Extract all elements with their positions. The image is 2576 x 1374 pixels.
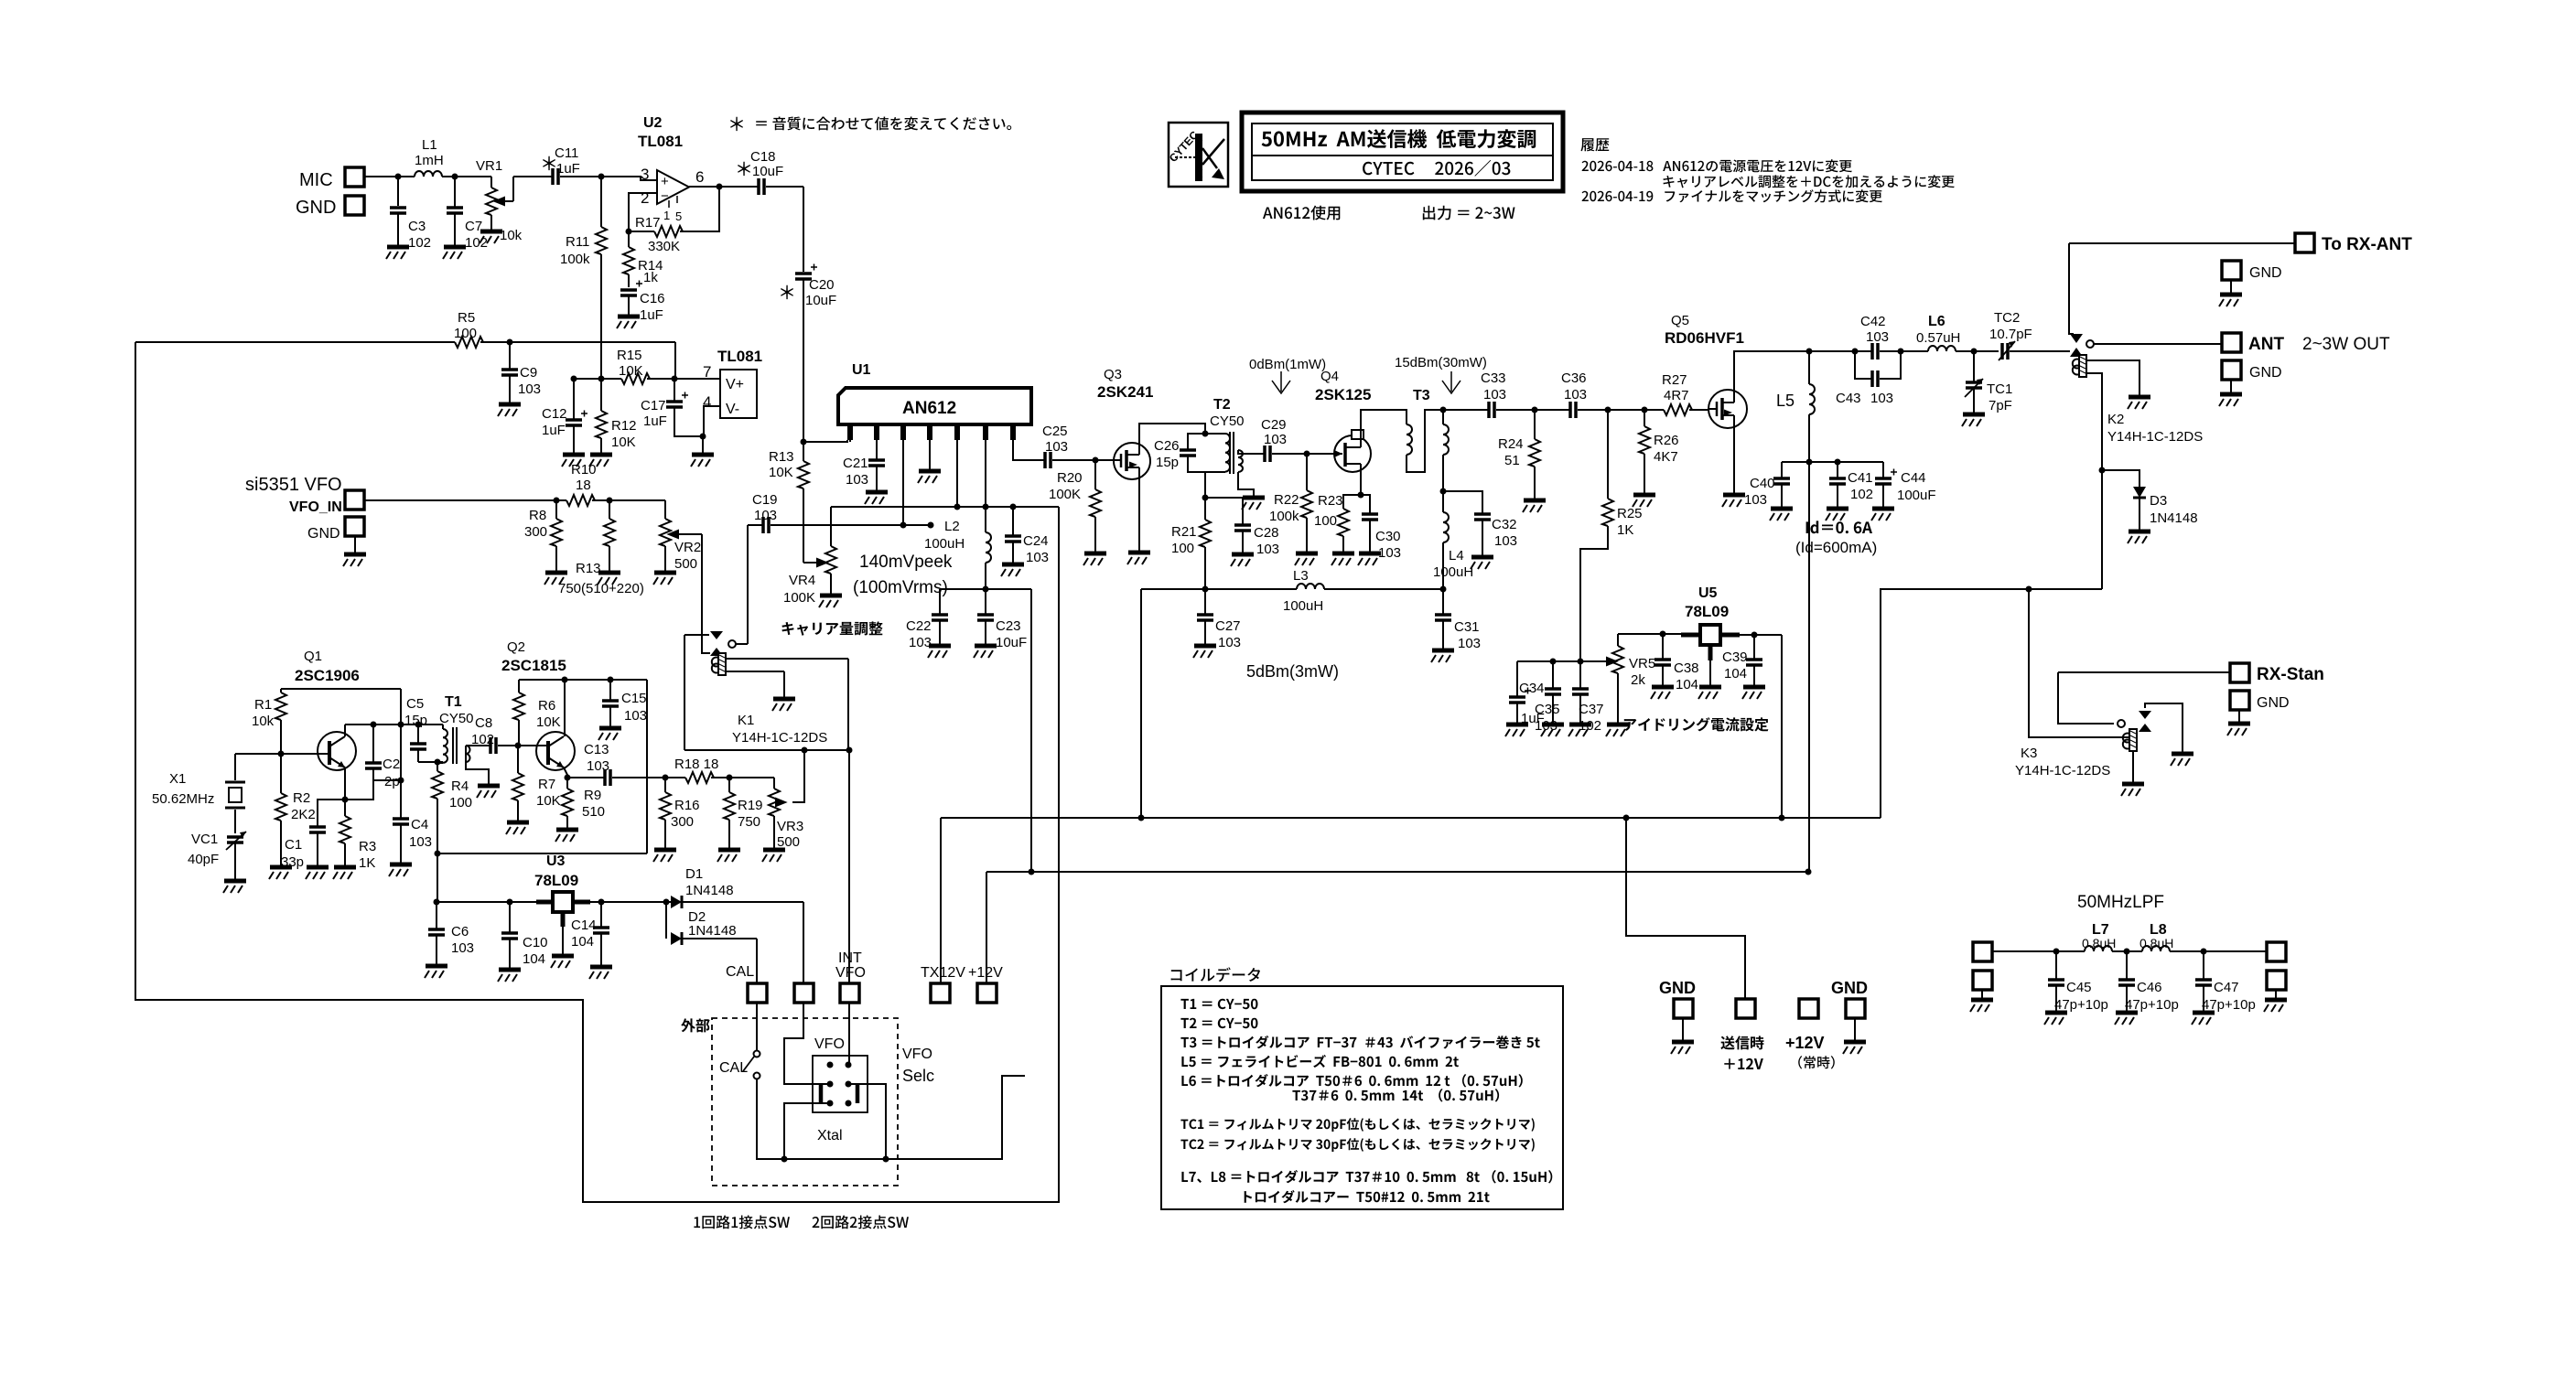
svg-text:103: 103: [1483, 387, 1506, 403]
wire mic to C3: [364, 176, 400, 177]
base line: [235, 753, 318, 755]
svg-text:2: 2: [641, 189, 649, 207]
svg-text:−: −: [661, 188, 669, 204]
connector TX12V: [931, 983, 950, 1003]
wire 9V to Q2 rail: [437, 680, 647, 853]
svg-text:102: 102: [1850, 487, 1873, 502]
svg-text:103: 103: [909, 635, 932, 650]
svg-text:U1: U1: [852, 362, 871, 378]
caption idling: [1624, 717, 1769, 731]
svg-text:R24: R24: [1498, 436, 1524, 452]
svg-text:10uF: 10uF: [752, 164, 783, 179]
transistor Q4 2SK125: [1307, 430, 1371, 472]
svg-text:103: 103: [1866, 329, 1889, 345]
svg-text:103: 103: [1045, 439, 1068, 455]
svg-text:TC1: TC1: [1987, 381, 2012, 397]
inductor L5: [1808, 351, 1810, 384]
svg-text:C36: C36: [1561, 370, 1587, 386]
relay K2 contact: [2059, 334, 2222, 357]
capacitor C14: [600, 902, 602, 928]
svg-text:TC2: TC2: [1994, 310, 2020, 326]
svg-text:10.7pF: 10.7pF: [1989, 327, 2032, 342]
svg-text:15p: 15p: [1156, 455, 1179, 470]
svg-text:C13: C13: [584, 742, 609, 757]
svg-text:78L09: 78L09: [1685, 603, 1729, 620]
svg-text:GND: GND: [1831, 979, 1868, 997]
connector ANT: [2222, 333, 2241, 352]
connector GND (rxstan): [2230, 691, 2249, 710]
svg-text:R4: R4: [451, 778, 469, 794]
svg-text:U2: U2: [643, 115, 663, 131]
relay K2 coil: [2073, 355, 2086, 377]
svg-text:D3: D3: [2150, 493, 2167, 509]
capacitor C18: [759, 178, 764, 195]
resistor R12: [600, 379, 602, 411]
connector GND (ant): [2222, 360, 2241, 380]
svg-text:R21: R21: [1171, 524, 1197, 540]
svg-text:T1: T1: [445, 694, 462, 710]
svg-text:Xtal: Xtal: [817, 1128, 843, 1143]
op-amp U2 TL081: [641, 166, 704, 223]
resistor R10: [556, 499, 566, 501]
resistor R24: [1534, 410, 1536, 439]
R18 node line: [663, 775, 669, 781]
svg-text:15p: 15p: [404, 713, 427, 728]
svg-text:C24: C24: [1023, 533, 1049, 549]
svg-text:R15: R15: [617, 348, 642, 363]
inductor L2: [985, 507, 986, 532]
wire vfo in: [364, 499, 556, 501]
svg-text:C32: C32: [1492, 517, 1517, 532]
svg-text:T3: T3: [1413, 388, 1430, 403]
svg-text:K2: K2: [2107, 412, 2124, 427]
svg-text:T2: T2: [1213, 397, 1231, 413]
svg-text:100: 100: [449, 795, 472, 810]
svg-text:1uF: 1uF: [556, 161, 580, 177]
svg-text:C7: C7: [465, 219, 482, 234]
resistor R26: [1644, 410, 1645, 426]
svg-text:MIC: MIC: [299, 170, 333, 190]
resistor R15: [621, 373, 650, 384]
Q2 collector rail: [519, 679, 647, 681]
connector VFO_IN: [345, 490, 364, 510]
capacitor C23: [985, 589, 986, 615]
svg-text:R18 18: R18 18: [674, 757, 718, 772]
svg-text:C26: C26: [1154, 438, 1180, 454]
svg-text:Y14H-1C-12DS: Y14H-1C-12DS: [732, 730, 827, 746]
svg-text:104: 104: [1724, 666, 1747, 682]
connector +12V: [977, 983, 997, 1003]
svg-text:100k: 100k: [560, 252, 590, 267]
svg-text:C41: C41: [1848, 470, 1873, 486]
svg-text:R3: R3: [359, 839, 376, 854]
svg-text:1N4148: 1N4148: [2150, 510, 2198, 526]
connector MIC: [345, 167, 364, 187]
svg-text:C33: C33: [1481, 370, 1506, 386]
connector TX +12V: [1736, 999, 1755, 1018]
svg-text:2SC1815: 2SC1815: [501, 657, 566, 674]
svg-text:C25: C25: [1042, 424, 1068, 439]
svg-text:L5: L5: [1776, 392, 1795, 410]
svg-text:(100mVrms): (100mVrms): [853, 578, 948, 597]
inductor L6: [1928, 346, 1956, 351]
resistor R18: [665, 777, 685, 778]
VFO ext wire: [784, 1003, 830, 1084]
connector LPF out gnd: [2267, 971, 2286, 990]
svg-text:R2: R2: [293, 790, 310, 806]
svg-text:103: 103: [409, 834, 432, 850]
svg-text:103: 103: [1564, 387, 1587, 403]
svg-text:VFO_IN: VFO_IN: [289, 499, 342, 515]
svg-text:C28: C28: [1254, 525, 1279, 541]
svg-text:C45: C45: [2066, 980, 2092, 995]
svg-text:INT: INT: [838, 950, 862, 966]
svg-text:TL081: TL081: [638, 133, 683, 150]
svg-text:CAL: CAL: [726, 964, 754, 980]
svg-text:103: 103: [451, 940, 474, 956]
node pin1/R13: [801, 439, 807, 445]
capacitor C46: [2126, 951, 2128, 980]
svg-text:10K: 10K: [769, 465, 793, 480]
svg-text:C4: C4: [411, 817, 428, 832]
pin4 wire: [704, 406, 720, 436]
capacitor C20 on vertical: [803, 187, 804, 272]
capacitor C9: [509, 342, 511, 403]
svg-text:7: 7: [703, 363, 711, 381]
svg-text:R12: R12: [611, 418, 637, 434]
svg-text:78L09: 78L09: [534, 872, 578, 889]
svg-text:4R7: 4R7: [1664, 388, 1689, 403]
svg-text:300: 300: [671, 814, 694, 830]
svg-text:500: 500: [777, 834, 800, 850]
svg-text:50.62MHz: 50.62MHz: [152, 791, 214, 807]
svg-text:C14: C14: [571, 918, 597, 933]
svg-text:C42: C42: [1860, 314, 1886, 329]
svg-text:VR3: VR3: [777, 819, 803, 834]
wire R13 to VR4 wiper: [803, 562, 819, 564]
svg-text:2SK241: 2SK241: [1097, 383, 1153, 401]
capacitor C41: [1837, 462, 1838, 478]
svg-text:CY50: CY50: [1210, 413, 1245, 429]
connector RX-Stan: [2230, 663, 2249, 682]
emitter node: [342, 797, 349, 803]
svg-text:C11: C11: [555, 145, 578, 161]
Q4 drain / T3: [1361, 410, 1407, 436]
svg-text:AN612: AN612: [902, 399, 956, 418]
potentiometer VR5: [1607, 658, 1616, 665]
svg-text:C39: C39: [1722, 649, 1748, 665]
svg-text:R16: R16: [674, 798, 700, 813]
variable capacitor VC1: [227, 837, 243, 843]
svg-text:C17: C17: [641, 398, 666, 413]
svg-text:C37: C37: [1579, 702, 1604, 717]
LPF main line: [1992, 950, 2085, 952]
resistor R17: [654, 226, 683, 237]
resistor R21: [1204, 498, 1206, 520]
connector GND (rx): [2222, 261, 2241, 280]
xtal box right wire: [848, 1084, 886, 1159]
resistor R11: [600, 177, 602, 227]
capacitor C8: [490, 737, 496, 754]
capacitor C37: [1579, 661, 1581, 689]
svg-text:1N4148: 1N4148: [688, 923, 737, 939]
svg-text:C1: C1: [285, 837, 302, 853]
svg-text:18: 18: [576, 478, 591, 493]
svg-text:0dBm(1mW): 0dBm(1mW): [1249, 357, 1326, 372]
svg-text:K3: K3: [2021, 746, 2037, 761]
svg-text:10K: 10K: [611, 435, 636, 450]
svg-text:10k: 10k: [252, 714, 275, 729]
svg-text:R1: R1: [254, 697, 272, 713]
svg-text:GND: GND: [2257, 695, 2290, 711]
note asterisk: [730, 117, 743, 131]
inductor L7: [2085, 946, 2112, 951]
svg-text:103: 103: [1026, 550, 1049, 565]
svg-text:R25: R25: [1617, 506, 1643, 521]
relay K3 contact: [2058, 672, 2183, 753]
svg-text:GND: GND: [2249, 365, 2282, 381]
resistor R25: [1607, 410, 1609, 499]
connector LPF in: [1973, 942, 1992, 961]
capacitor C21 (pin2): [876, 440, 878, 460]
svg-text:To RX-ANT: To RX-ANT: [2322, 235, 2412, 254]
emitter node Q2: [565, 775, 571, 781]
dashed box gaibu: [712, 1018, 898, 1186]
svg-text:C19: C19: [752, 492, 778, 508]
svg-text:D1: D1: [685, 866, 703, 882]
rail y693 to U5: [1618, 633, 1681, 635]
transistor Q3 2SK241: [1095, 443, 1150, 479]
CAL switch: [756, 1003, 758, 1050]
resistor R22: [1306, 454, 1308, 490]
svg-text:L1: L1: [422, 137, 437, 153]
capacitor C44: [1882, 462, 1884, 478]
svg-text:Q5: Q5: [1671, 313, 1689, 328]
svg-text:100uH: 100uH: [924, 536, 965, 552]
resistor R3: [344, 800, 346, 816]
svg-text:+: +: [661, 174, 669, 189]
svg-text:2SK125: 2SK125: [1315, 386, 1371, 403]
history text: [1580, 138, 1954, 202]
svg-text:GND: GND: [1659, 979, 1696, 997]
trimmer TC2: [1974, 350, 1999, 352]
svg-text:ANT: ANT: [2248, 335, 2284, 354]
svg-text:1uF: 1uF: [643, 413, 667, 429]
svg-text:100uH: 100uH: [1433, 564, 1473, 580]
inductor L3: [1141, 588, 1297, 590]
subtitle texts: [1263, 206, 1340, 220]
svg-text:VFO: VFO: [835, 965, 866, 981]
resistor R13 10K: [803, 442, 804, 461]
capacitor C32: [1443, 491, 1482, 514]
svg-text:104: 104: [523, 951, 545, 967]
wire TX12V rail y894: [941, 817, 1881, 819]
svg-text:R27: R27: [1662, 372, 1687, 388]
svg-text:750: 750: [738, 814, 760, 830]
pin4 ground: [929, 440, 931, 470]
svg-text:R13: R13: [576, 561, 601, 576]
node C9: [507, 339, 513, 346]
svg-text:R7: R7: [538, 777, 555, 792]
svg-text:C31: C31: [1454, 619, 1480, 635]
svg-text:C10: C10: [523, 935, 548, 950]
wire x2217 to K3 coil: [2029, 589, 2129, 737]
capacitor C47: [2203, 951, 2204, 980]
svg-text:100k: 100k: [1269, 509, 1299, 524]
svg-text:C2: C2: [383, 757, 400, 772]
regulator U3 78L09: [536, 892, 590, 955]
svg-text:103: 103: [518, 381, 541, 397]
svg-text:330K: 330K: [648, 239, 680, 254]
svg-text:2p: 2p: [384, 774, 400, 789]
Q3 drain wire: [1139, 424, 1205, 443]
svg-text:C22: C22: [906, 618, 932, 634]
input wire: [437, 901, 536, 903]
+9V rail Q1: [281, 689, 401, 819]
svg-text:10K: 10K: [619, 363, 643, 379]
svg-text:10uF: 10uF: [805, 293, 836, 308]
connector INT VFO: [840, 983, 859, 1003]
wire x1247 riser: [1140, 589, 1142, 818]
regulator U5 78L09: [1681, 625, 1740, 686]
diode D2: [665, 902, 667, 939]
capacitor C45: [2055, 951, 2057, 980]
capacitor C38: [1662, 634, 1664, 660]
TL081 V box: [720, 370, 757, 418]
svg-text:Q1: Q1: [304, 649, 322, 664]
potentiometer VR1: [455, 177, 491, 188]
capacitor C1: [318, 800, 345, 827]
capacitor C7: [454, 177, 456, 246]
relay K1 coil: [712, 653, 726, 675]
transformer T3: [1407, 410, 1449, 491]
sw captions: [694, 1216, 790, 1229]
svg-text:+12V: +12V: [1785, 1034, 1825, 1052]
rail y644: [940, 588, 1031, 590]
svg-text:TL081: TL081: [717, 348, 762, 365]
svg-text:C20: C20: [809, 277, 835, 293]
connector LPF in gnd: [1973, 971, 1992, 990]
capacitor C11: [553, 168, 558, 185]
Q5 source ground: [1733, 428, 1735, 494]
resistor R7: [517, 746, 519, 773]
svg-text:C46: C46: [2137, 980, 2162, 995]
collector rail y792: [345, 724, 443, 725]
svg-text:1: 1: [663, 209, 670, 222]
CYTEC logo box: [1167, 123, 1228, 187]
Q3 source ground: [1138, 479, 1140, 552]
potentiometer VR4: [830, 507, 832, 546]
ground (C3): [386, 247, 409, 259]
xtal switch box: [813, 1056, 868, 1112]
svg-text:V+: V+: [726, 377, 744, 392]
relay K1 contact: [684, 525, 748, 750]
svg-text:C30: C30: [1375, 529, 1401, 544]
svg-text:1k: 1k: [643, 270, 658, 285]
svg-text:U5: U5: [1698, 585, 1718, 601]
svg-text:C18: C18: [750, 149, 776, 165]
svg-text:104: 104: [571, 934, 594, 950]
svg-text:C21: C21: [843, 456, 868, 471]
svg-text:VC1: VC1: [191, 832, 218, 847]
rail y505 C40/C41/C44: [1782, 461, 1883, 463]
svg-text:2SC1906: 2SC1906: [295, 667, 360, 684]
svg-text:2K2: 2K2: [291, 807, 316, 822]
capacitor C30: [1361, 495, 1370, 514]
svg-text:300: 300: [524, 524, 547, 540]
svg-text:100: 100: [454, 326, 477, 341]
svg-text:L3: L3: [1293, 568, 1309, 584]
svg-text:C9: C9: [520, 365, 537, 381]
rail y414: [574, 378, 621, 380]
connector +12V always: [1799, 999, 1818, 1018]
capacitor C36: [1535, 409, 1570, 411]
wire outer loop: [135, 342, 1059, 1202]
svg-text:C35: C35: [1535, 702, 1560, 717]
svg-text:C5: C5: [406, 696, 424, 712]
svg-text:R11: R11: [566, 234, 589, 250]
resistor R20: [1094, 460, 1096, 489]
svg-text:10K: 10K: [536, 793, 561, 809]
resistor R16: [664, 778, 666, 792]
svg-text:C34: C34: [1519, 681, 1545, 696]
capacitor C12: [573, 379, 575, 420]
capacitor C29: [1265, 445, 1270, 462]
xtal box bottom-left wire: [784, 1103, 830, 1159]
resistor R1: [280, 689, 282, 692]
svg-text:C47: C47: [2214, 980, 2239, 995]
svg-text:R10: R10: [571, 462, 597, 478]
svg-text:1mH: 1mH: [415, 153, 444, 168]
svg-text:103: 103: [846, 472, 868, 488]
svg-text:2~3W OUT: 2~3W OUT: [2302, 335, 2390, 354]
ground (C7): [443, 247, 466, 259]
wire to R26: [1608, 409, 1664, 411]
svg-text:R17: R17: [635, 215, 661, 231]
svg-text:103: 103: [1870, 391, 1893, 406]
feedback wire to pin2: [629, 187, 719, 231]
svg-text:R23: R23: [1318, 493, 1343, 509]
wire to op-amp +input: [601, 177, 657, 180]
transistor Q1 2SC1906: [318, 725, 356, 790]
op-amp output wire: [689, 186, 760, 188]
rail y723 C34/C35/C37/VR5: [1517, 660, 1609, 662]
svg-text:100uH: 100uH: [1283, 598, 1323, 614]
svg-text:GND: GND: [2249, 265, 2282, 281]
svg-text:0.8uH: 0.8uH: [2139, 936, 2173, 950]
svg-text:5: 5: [675, 209, 682, 223]
svg-text:500: 500: [674, 556, 697, 572]
resistor R4: [437, 762, 438, 771]
svg-text:510: 510: [582, 804, 605, 820]
svg-text:Q2: Q2: [507, 639, 525, 655]
svg-text:R22: R22: [1274, 492, 1299, 508]
svg-text:4K7: 4K7: [1654, 449, 1678, 465]
rail y554: [831, 507, 1059, 1201]
resistor R27: [1664, 404, 1692, 415]
svg-text:103: 103: [1264, 432, 1287, 447]
svg-text:47p+10p: 47p+10p: [2125, 997, 2179, 1013]
INT VFO wire into box: [848, 1003, 850, 1065]
svg-text:VR5: VR5: [1629, 656, 1655, 671]
inductor L4: [1442, 491, 1444, 512]
svg-text:CY50: CY50: [439, 711, 474, 726]
wire y384 to C42: [1809, 350, 1872, 352]
svg-text:Selc: Selc: [902, 1067, 934, 1085]
capacitor C28: [1205, 498, 1243, 525]
svg-text:si5351 VFO: si5351 VFO: [245, 475, 342, 495]
potentiometer VR2: [660, 519, 671, 546]
